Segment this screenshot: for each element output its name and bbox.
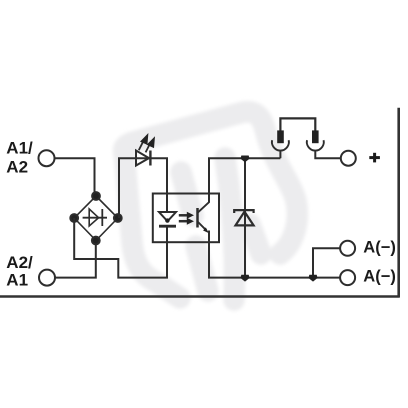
- node A(-) branch: [309, 275, 318, 282]
- node: bridge left: [70, 214, 78, 222]
- svg-text:A1/: A1/: [6, 139, 33, 158]
- node diode top: [241, 156, 250, 163]
- svg-text:A(−): A(−): [363, 238, 396, 256]
- wire socket stems: [279, 151, 281, 159]
- svg-text:A1: A1: [6, 271, 28, 290]
- node diode bottom: [241, 275, 250, 282]
- wire: [119, 158, 167, 218]
- watermark: [124, 112, 298, 300]
- terminal A1/A2: [39, 150, 55, 166]
- svg-text:A2: A2: [6, 158, 28, 177]
- optocoupler light arrows: [179, 215, 188, 221]
- terminal A(-) lower: [340, 270, 355, 285]
- svg-text:A(−): A(−): [363, 268, 396, 286]
- phototransistor: [196, 208, 199, 228]
- svg-text:A2/: A2/: [6, 253, 33, 272]
- plus sign: [369, 153, 380, 163]
- optocoupler box: [153, 194, 219, 243]
- bridge rectifier: [74, 196, 118, 241]
- wire emitter to A(-): [209, 231, 340, 278]
- node: bridge top: [92, 192, 100, 200]
- LED indicator: [136, 142, 150, 166]
- wire: [74, 218, 167, 278]
- jumper socket left: [272, 140, 289, 150]
- bottom border: [0, 295, 400, 298]
- right border: [397, 108, 400, 298]
- freewheeling diode: [244, 158, 246, 277]
- wire collector to jumper: [209, 158, 280, 203]
- plug-in jumper: [280, 118, 315, 131]
- terminal plus: [341, 151, 356, 166]
- label A1/A2: [6, 139, 396, 290]
- terminal A(-) upper: [340, 241, 355, 256]
- terminal A2/A1: [39, 270, 55, 286]
- node: bridge bottom: [92, 237, 100, 245]
- wire A(-) branch: [313, 248, 340, 277]
- jumper socket right: [307, 140, 324, 150]
- wire: [55, 241, 96, 278]
- node: bridge right: [114, 214, 122, 222]
- optocoupler LED: [159, 212, 176, 226]
- wire: [55, 158, 95, 196]
